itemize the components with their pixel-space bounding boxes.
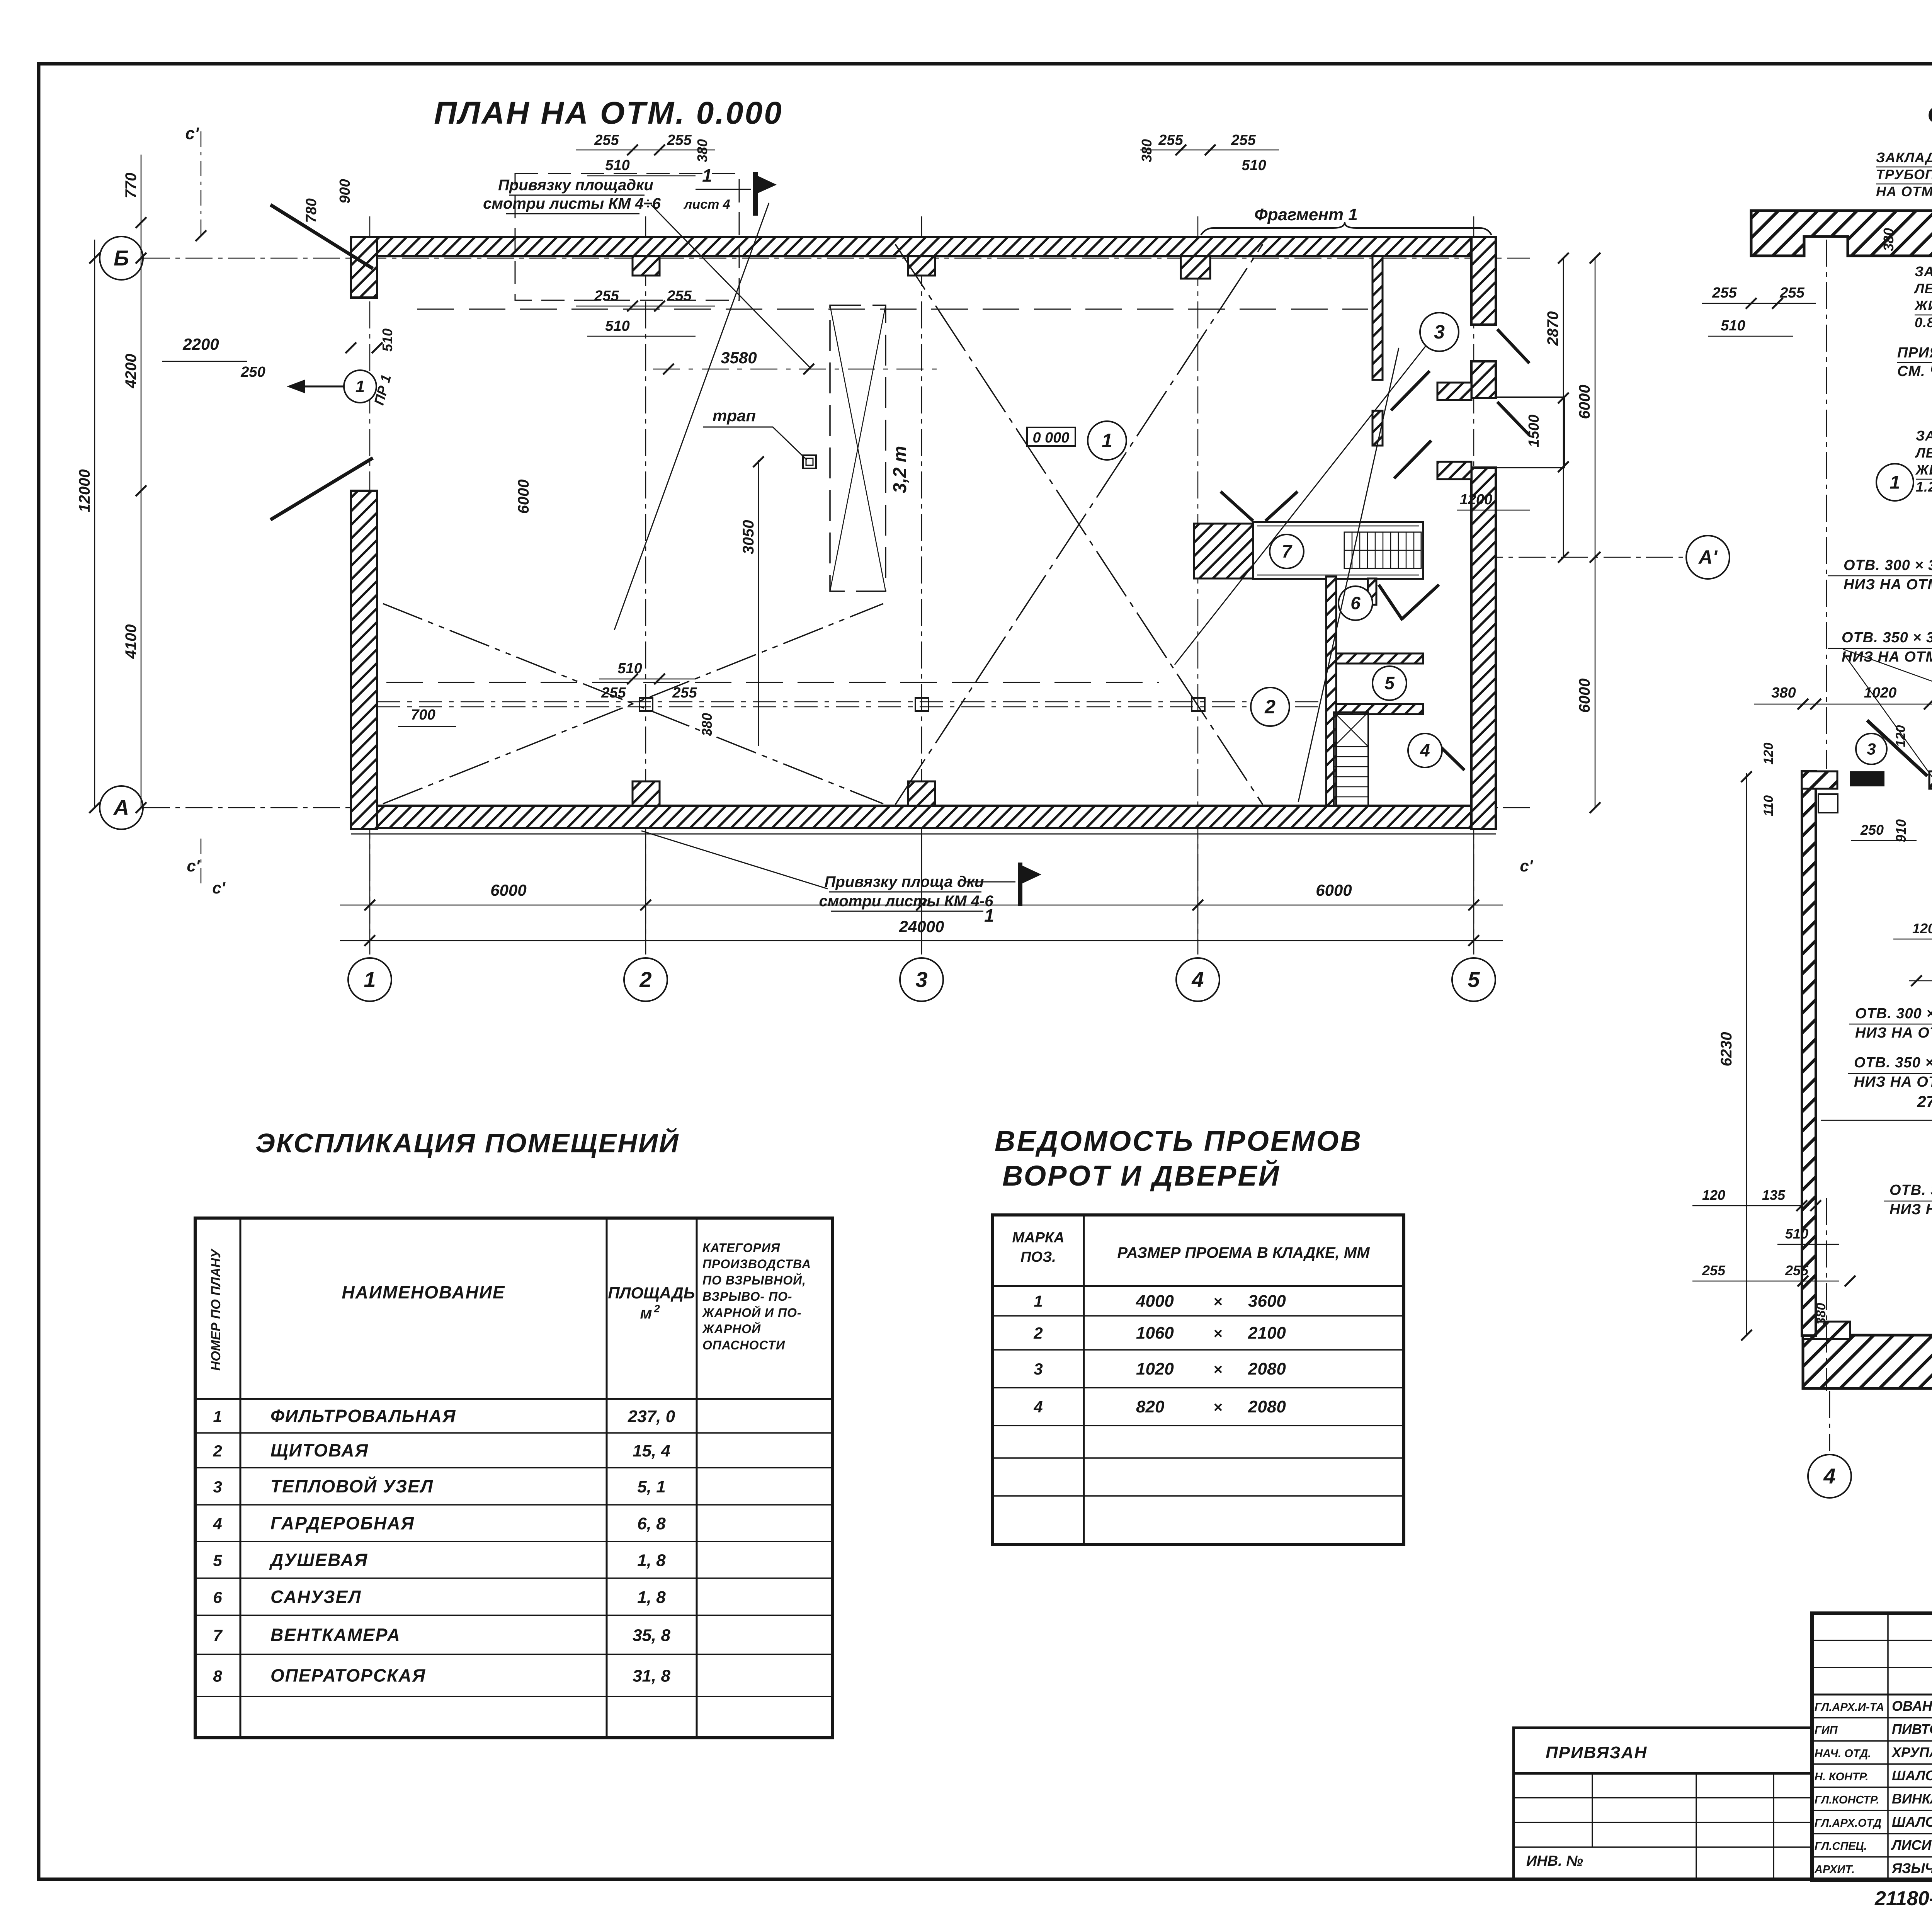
axis circle 3 bbox=[900, 958, 943, 1001]
svg-text:2080: 2080 bbox=[1248, 1397, 1286, 1416]
svg-text:1: 1 bbox=[984, 905, 994, 926]
plan top-left corner pier bbox=[351, 237, 377, 298]
svg-text:510: 510 bbox=[379, 328, 395, 352]
svg-text:c': c' bbox=[187, 857, 200, 875]
svg-text:1500: 1500 bbox=[1526, 415, 1542, 447]
bottom dim line 6000s bbox=[340, 905, 1503, 906]
pilaster axis4 top bbox=[1181, 256, 1210, 279]
svg-text:1: 1 bbox=[702, 165, 712, 185]
svg-text:255: 255 bbox=[1785, 1262, 1809, 1278]
crane rect X bbox=[830, 305, 886, 591]
svg-text:0.800. М-4: 0.800. М-4 bbox=[1915, 315, 1932, 330]
svg-text:2080: 2080 bbox=[1248, 1359, 1286, 1378]
svg-text:3: 3 bbox=[915, 967, 927, 992]
fragment bracket bbox=[1201, 222, 1492, 235]
column square axis4 bbox=[1192, 698, 1205, 711]
svg-text:1060: 1060 bbox=[1136, 1324, 1174, 1342]
svg-text:7: 7 bbox=[213, 1627, 223, 1645]
svg-text:Фрагмент 1: Фрагмент 1 bbox=[1254, 205, 1358, 224]
svg-text:ГЛ.СПЕЦ.: ГЛ.СПЕЦ. bbox=[1815, 1840, 1867, 1853]
svg-text:ПИВТОРАК: ПИВТОРАК bbox=[1892, 1721, 1932, 1737]
svg-text:6000: 6000 bbox=[490, 881, 526, 899]
svg-text:Н. КОНТР.: Н. КОНТР. bbox=[1815, 1771, 1869, 1783]
svg-text:255: 255 bbox=[1231, 132, 1256, 148]
svg-text:24000: 24000 bbox=[899, 917, 944, 936]
svg-text:255: 255 bbox=[672, 685, 697, 701]
room 7 stair bbox=[1344, 532, 1421, 568]
svg-text:НИЗ НА ОТМ. 2.780: НИЗ НА ОТМ. 2.780 bbox=[1854, 1074, 1932, 1090]
svg-text:1.200. М-4: 1.200. М-4 bbox=[1916, 479, 1932, 495]
svg-text:1, 8: 1, 8 bbox=[637, 1551, 666, 1570]
svg-text:1: 1 bbox=[1102, 430, 1112, 451]
svg-text:6: 6 bbox=[213, 1588, 222, 1606]
svg-text:ОТВ. 300 × 300 ОВ: ОТВ. 300 × 300 ОВ bbox=[1855, 1006, 1932, 1022]
cross brace room 1 bbox=[895, 244, 1263, 805]
svg-text:ОПАСНОСТИ: ОПАСНОСТИ bbox=[702, 1338, 785, 1352]
svg-text:255: 255 bbox=[667, 288, 692, 304]
svg-text:5: 5 bbox=[1384, 673, 1395, 693]
svg-text:СМ. ЧЕРТЕЖИ КЖ 15: СМ. ЧЕРТЕЖИ КЖ 15 bbox=[1897, 363, 1932, 379]
signature rows bbox=[1812, 1717, 1932, 1718]
svg-text:c': c' bbox=[1520, 857, 1533, 875]
partition 5/4 horizontal bbox=[1336, 704, 1423, 714]
svg-text:255: 255 bbox=[667, 132, 692, 148]
svg-text:лист 4: лист 4 bbox=[683, 197, 730, 212]
svg-text:6000: 6000 bbox=[515, 480, 532, 514]
svg-text:А': А' bbox=[1698, 546, 1718, 568]
mini grid top-left bbox=[1812, 1640, 1932, 1641]
svg-text:ИНВ. №: ИНВ. № bbox=[1526, 1853, 1583, 1869]
svg-text:7: 7 bbox=[1282, 541, 1293, 561]
column square axis2 bbox=[639, 698, 653, 711]
plan bottom wall bbox=[351, 806, 1496, 828]
door leaf room3 lower bbox=[1394, 441, 1431, 478]
svg-text:1020: 1020 bbox=[1864, 685, 1897, 701]
svg-text:255: 255 bbox=[1702, 1262, 1726, 1278]
svg-text:910: 910 bbox=[1893, 819, 1909, 842]
svg-text:ГЛ.КОНСТР.: ГЛ.КОНСТР. bbox=[1815, 1794, 1879, 1806]
svg-text:2775: 2775 bbox=[1917, 1092, 1932, 1111]
svg-text:ПРОИЗВОДСТВА: ПРОИЗВОДСТВА bbox=[702, 1257, 811, 1271]
svg-text:237, 0: 237, 0 bbox=[628, 1407, 675, 1426]
svg-text:ЖАРНОЙ И ПО-: ЖАРНОЙ И ПО- bbox=[702, 1306, 802, 1320]
svg-text:ВОРОТ И ДВЕРЕЙ: ВОРОТ И ДВЕРЕЙ bbox=[1002, 1159, 1281, 1192]
pilaster axis3 top bbox=[908, 256, 935, 276]
svg-text:35, 8: 35, 8 bbox=[633, 1626, 670, 1645]
svg-text:ОТВ. 300 × 300 ОВ: ОТВ. 300 × 300 ОВ bbox=[1844, 557, 1932, 573]
svg-text:255: 255 bbox=[1158, 132, 1183, 148]
cross brace lower-left room bbox=[383, 604, 883, 804]
axis circle 2 bbox=[624, 958, 667, 1001]
axis B horizontal bbox=[100, 258, 359, 259]
svg-text:3,2 т: 3,2 т bbox=[890, 446, 910, 493]
svg-text:ПР 4: ПР 4 bbox=[1855, 769, 1884, 784]
svg-text:2: 2 bbox=[213, 1442, 222, 1460]
fragment bottom-left step bbox=[1803, 1322, 1850, 1339]
svg-text:НОМЕР ПО ПЛАНУ: НОМЕР ПО ПЛАНУ bbox=[209, 1248, 223, 1371]
svg-text:2: 2 bbox=[1264, 696, 1276, 718]
pilaster axis2 top bbox=[633, 256, 660, 276]
svg-text:4100: 4100 bbox=[122, 624, 139, 659]
small ticks left wall bbox=[372, 342, 383, 353]
svg-text:ЛЕНИЯ ТРУБОПРОВОДОВ ЗАЛО-: ЛЕНИЯ ТРУБОПРОВОДОВ ЗАЛО- bbox=[1915, 445, 1932, 461]
right dim chain bbox=[1563, 258, 1564, 557]
plan right wall middle bbox=[1471, 361, 1496, 398]
partition rooms 2/6 vertical bbox=[1326, 577, 1336, 806]
svg-text:2: 2 bbox=[639, 967, 651, 992]
bottom dim extension lines bbox=[369, 835, 371, 954]
svg-text:ПО ВЗРЫВНОЙ,: ПО ВЗРЫВНОЙ, bbox=[702, 1273, 806, 1287]
svg-text:ФИЛЬТРОВАЛЬНАЯ: ФИЛЬТРОВАЛЬНАЯ bbox=[270, 1406, 456, 1426]
svg-text:ТЕПЛОВОЙ УЗЕЛ: ТЕПЛОВОЙ УЗЕЛ bbox=[270, 1476, 434, 1496]
svg-text:4200: 4200 bbox=[122, 354, 139, 389]
svg-text:2870: 2870 bbox=[1544, 311, 1561, 346]
svg-text:НА ОТМЕТКАХ 0.800 И 1.200 М-4: НА ОТМЕТКАХ 0.800 И 1.200 М-4 bbox=[1876, 184, 1932, 199]
svg-text:1200: 1200 bbox=[1460, 492, 1493, 508]
svg-text:ГИП: ГИП bbox=[1815, 1724, 1838, 1737]
svg-text:ЛЕНИЯ ТРУБОПРОВОДОВ ЗАЛО-: ЛЕНИЯ ТРУБОПРОВОДОВ ЗАЛО- bbox=[1913, 281, 1932, 296]
svg-text:м: м bbox=[640, 1304, 652, 1322]
svg-text:110: 110 bbox=[1761, 795, 1776, 816]
svg-text:1: 1 bbox=[213, 1407, 222, 1426]
door pair room 7 bbox=[1221, 492, 1253, 521]
svg-text:ЖАРНОЙ: ЖАРНОЙ bbox=[702, 1322, 761, 1336]
door pair room 6 bbox=[1379, 585, 1403, 620]
svg-text:ОТВ. 350 × 350 ОВ: ОТВ. 350 × 350 ОВ bbox=[1842, 630, 1932, 646]
svg-text:380: 380 bbox=[1881, 228, 1896, 251]
svg-text:6: 6 bbox=[1350, 593, 1361, 613]
svg-text:Привязку площадки: Привязку площадки bbox=[498, 177, 653, 194]
svg-text:КАТЕГОРИЯ: КАТЕГОРИЯ bbox=[702, 1241, 780, 1255]
room 7 box bbox=[1253, 522, 1423, 579]
plan top wall bbox=[351, 237, 1496, 256]
svg-text:21180-01: 21180-01 bbox=[1874, 1887, 1932, 1910]
gate PR1 leaf lower bbox=[270, 458, 373, 520]
svg-text:А: А bbox=[113, 795, 129, 820]
partition 6/5 horizontal bbox=[1336, 653, 1423, 664]
svg-text:ЯЗЫЧЬЯН: ЯЗЫЧЬЯН bbox=[1891, 1860, 1932, 1876]
svg-text:ОПЕРАТОРСКАЯ: ОПЕРАТОРСКАЯ bbox=[270, 1666, 426, 1686]
axis C' top dash bbox=[201, 131, 202, 240]
stub from right wall 1 bbox=[1437, 383, 1471, 400]
svg-text:780: 780 bbox=[303, 198, 320, 223]
svg-text:120: 120 bbox=[1761, 743, 1776, 765]
svg-text:250: 250 bbox=[240, 364, 265, 380]
plan bottom wall footing line bbox=[351, 834, 1496, 835]
crane rail dashed upper bbox=[417, 309, 1368, 310]
svg-text:380: 380 bbox=[1814, 1303, 1828, 1325]
svg-text:ЩИТОВАЯ: ЩИТОВАЯ bbox=[270, 1440, 369, 1460]
svg-text:2200: 2200 bbox=[182, 335, 219, 353]
axis circle 4 bbox=[1176, 958, 1219, 1001]
svg-text:ЗАКЛАДНЫЕ ДЕТАЛИ ДЛЯ КРЕП-: ЗАКЛАДНЫЕ ДЕТАЛИ ДЛЯ КРЕП- bbox=[1916, 428, 1932, 444]
svg-text:120: 120 bbox=[1702, 1187, 1725, 1203]
svg-text:ГЛ.АРХ.ОТД: ГЛ.АРХ.ОТД bbox=[1815, 1817, 1881, 1829]
axis circle A' plan bbox=[1686, 536, 1730, 579]
svg-text:1: 1 bbox=[364, 967, 376, 992]
svg-text:ГЛ.АРХ.И-ТА: ГЛ.АРХ.И-ТА bbox=[1815, 1701, 1884, 1713]
leader diagonal from circle 3 bbox=[1175, 346, 1426, 665]
svg-text:смотри листы КМ 4-6: смотри листы КМ 4-6 bbox=[819, 893, 993, 910]
svg-text:НАЧ. ОТД.: НАЧ. ОТД. bbox=[1815, 1747, 1871, 1760]
svg-text:c': c' bbox=[185, 124, 199, 143]
svg-text:АРХИТ.: АРХИТ. bbox=[1814, 1863, 1855, 1876]
svg-text:6000: 6000 bbox=[1316, 881, 1352, 899]
svg-text:255: 255 bbox=[601, 685, 626, 701]
svg-text:4: 4 bbox=[1033, 1398, 1043, 1416]
svg-text:ЖИТЬ В КЛАДКУ НА ОТМЕТКЕ: ЖИТЬ В КЛАДКУ НА ОТМЕТКЕ bbox=[1914, 298, 1932, 313]
svg-text:5: 5 bbox=[213, 1552, 222, 1570]
svg-text:ЖИТЬ В КЛАДКУ НА ОТМЕТКЕ: ЖИТЬ В КЛАДКУ НА ОТМЕТКЕ bbox=[1915, 462, 1932, 478]
extension line B left bbox=[143, 258, 351, 259]
svg-text:820: 820 bbox=[1136, 1397, 1165, 1416]
frag axis circle 4 bbox=[1808, 1455, 1851, 1498]
svg-text:ОВАНЕСЯН: ОВАНЕСЯН bbox=[1892, 1698, 1932, 1714]
axis 5 vertical bbox=[1473, 216, 1475, 954]
svg-text:c': c' bbox=[212, 879, 226, 897]
svg-text:8: 8 bbox=[213, 1667, 222, 1685]
pilaster axis2 bottom bbox=[633, 781, 660, 806]
door leaf 3 top bbox=[1867, 720, 1927, 776]
svg-text:НАИМЕНОВАНИЕ: НАИМЕНОВАНИЕ bbox=[342, 1282, 505, 1302]
svg-text:15, 4: 15, 4 bbox=[633, 1441, 670, 1460]
svg-text:3: 3 bbox=[1867, 740, 1876, 758]
pit square at left wall bbox=[1818, 794, 1838, 813]
svg-text:700: 700 bbox=[411, 707, 435, 723]
axis A horizontal bbox=[100, 807, 1530, 808]
svg-text:1, 8: 1, 8 bbox=[637, 1588, 666, 1607]
svg-text:ХРУПАЛО: ХРУПАЛО bbox=[1891, 1744, 1932, 1760]
gate PR1 leaf upper bbox=[270, 205, 373, 269]
svg-text:31, 8: 31, 8 bbox=[633, 1667, 670, 1686]
door leaf room 4 bbox=[1430, 736, 1464, 770]
axis circle 1 bbox=[348, 958, 391, 1001]
lintel PR4 top bbox=[1850, 771, 1884, 786]
room circle 2 bbox=[1251, 687, 1289, 726]
svg-text:380: 380 bbox=[1139, 139, 1155, 162]
leader diagonal rooms bbox=[1298, 348, 1399, 802]
svg-text:120: 120 bbox=[1893, 725, 1908, 747]
svg-text:1020: 1020 bbox=[1136, 1359, 1174, 1378]
svg-text:РАЗМЕР ПРОЕМА В КЛАДКЕ, ММ: РАЗМЕР ПРОЕМА В КЛАДКЕ, ММ bbox=[1117, 1244, 1370, 1261]
svg-text:ГАРДЕРОБНАЯ: ГАРДЕРОБНАЯ bbox=[270, 1513, 415, 1533]
svg-text:255: 255 bbox=[594, 132, 619, 148]
svg-text:ВЕДОМОСТЬ ПРОЕМОВ: ВЕДОМОСТЬ ПРОЕМОВ bbox=[995, 1125, 1362, 1157]
svg-text:ТРУБОПРОВОДОВ ЗАЛОЖИТЬ В КЛАДК: ТРУБОПРОВОДОВ ЗАЛОЖИТЬ В КЛАДКУ bbox=[1876, 167, 1932, 182]
svg-text:ФРАГМЕНТ 1: ФРАГМЕНТ 1 bbox=[1927, 97, 1932, 133]
svg-text:4: 4 bbox=[1420, 740, 1430, 761]
svg-text:ПЛОЩАДЬ: ПЛОЩАДЬ bbox=[608, 1284, 695, 1302]
axis 2 vertical bbox=[645, 216, 646, 954]
svg-text:380: 380 bbox=[694, 139, 710, 162]
room circle 4 bbox=[1408, 733, 1442, 767]
pilaster axis3 bottom bbox=[908, 781, 935, 806]
svg-text:ЗАКЛАДНЫЕ ДЕТАЛИ ДЛЯ КРЕП-: ЗАКЛАДНЫЕ ДЕТАЛИ ДЛЯ КРЕП- bbox=[1915, 264, 1932, 279]
section flag bottom bbox=[1018, 863, 1022, 906]
crane rail dashed lower bbox=[386, 682, 1159, 683]
plan right wall lower bbox=[1471, 468, 1496, 829]
trap symbol bbox=[803, 455, 816, 468]
table 1 grid bbox=[195, 1218, 832, 1738]
svg-text:ПРИВЯЗАН: ПРИВЯЗАН bbox=[1546, 1743, 1647, 1762]
svg-text:6230: 6230 bbox=[1718, 1032, 1735, 1067]
svg-text:ВЕНТКАМЕРА: ВЕНТКАМЕРА bbox=[270, 1625, 401, 1645]
svg-text:ОТВ. 350 × 350 ОВ: ОТВ. 350 × 350 ОВ bbox=[1889, 1182, 1932, 1198]
privyazan block bbox=[1514, 1728, 1812, 1773]
svg-text:1: 1 bbox=[355, 377, 365, 396]
svg-text:900: 900 bbox=[337, 179, 353, 203]
svg-text:×: × bbox=[1213, 1361, 1222, 1378]
svg-text:0 000: 0 000 bbox=[1032, 430, 1069, 446]
privyazan grid bbox=[1512, 1773, 1515, 1879]
svg-text:250: 250 bbox=[1860, 822, 1884, 838]
room circle 3 bbox=[1420, 313, 1459, 351]
room circle 1 bbox=[1088, 421, 1126, 460]
svg-text:120: 120 bbox=[1912, 920, 1932, 936]
leader lines from callout bbox=[614, 203, 769, 630]
svg-text:ПРИЯМОК: ПРИЯМОК bbox=[1897, 345, 1932, 361]
vent shaft plan bbox=[1334, 712, 1368, 806]
svg-text:ВЗРЫВО- ПО-: ВЗРЫВО- ПО- bbox=[702, 1290, 793, 1303]
svg-text:ДУШЕВАЯ: ДУШЕВАЯ bbox=[269, 1550, 368, 1570]
svg-text:3600: 3600 bbox=[1248, 1292, 1286, 1311]
elevation box 0.000 bbox=[1027, 427, 1075, 446]
svg-text:НИЗ НА ОТМ. 3.000: НИЗ НА ОТМ. 3.000 bbox=[1844, 577, 1932, 593]
svg-text:ПОЗ.: ПОЗ. bbox=[1020, 1249, 1056, 1265]
left dim chain line bbox=[141, 155, 142, 808]
upper right door leaf bbox=[1497, 329, 1529, 363]
svg-text:2: 2 bbox=[1033, 1324, 1043, 1342]
table 2 grid bbox=[993, 1215, 1404, 1545]
bay door leaf bbox=[1497, 402, 1529, 435]
svg-text:3: 3 bbox=[1434, 321, 1445, 343]
gate PR1 arrow bbox=[294, 386, 352, 388]
svg-text:ЗАКЛАДНЫЕ ДЕТАЛИ ДЛЯ КРЕПЛЕНИЯ: ЗАКЛАДНЫЕ ДЕТАЛИ ДЛЯ КРЕПЛЕНИЯ bbox=[1876, 150, 1932, 165]
plan bottom-left corner pier bbox=[351, 781, 377, 806]
svg-text:трап: трап bbox=[713, 407, 756, 425]
fragment left wall corner piece bbox=[1802, 771, 1837, 789]
fragment left wall bbox=[1802, 771, 1816, 1336]
svg-text:510: 510 bbox=[605, 318, 629, 334]
svg-text:6000: 6000 bbox=[1576, 385, 1593, 419]
svg-text:5, 1: 5, 1 bbox=[637, 1477, 665, 1496]
column square axis3 bbox=[915, 698, 929, 711]
svg-text:380: 380 bbox=[699, 713, 715, 736]
svg-text:3: 3 bbox=[1034, 1360, 1043, 1378]
svg-text:ШАЛОМЕЕВ: ШАЛОМЕЕВ bbox=[1892, 1814, 1932, 1830]
svg-text:НИЗ НА ОТМ. 2.780: НИЗ НА ОТМ. 2.780 bbox=[1842, 649, 1932, 665]
svg-text:6, 8: 6, 8 bbox=[637, 1514, 666, 1533]
stub partition bbox=[1368, 578, 1376, 605]
room circle 6 bbox=[1338, 586, 1372, 620]
svg-text:4: 4 bbox=[1191, 967, 1204, 992]
section flag top bbox=[753, 172, 758, 216]
svg-text:Б: Б bbox=[114, 246, 129, 270]
svg-text:255: 255 bbox=[594, 288, 619, 304]
plan right wall upper bbox=[1471, 237, 1496, 325]
svg-text:ШАЛОМЕЕВ: ШАЛОМЕЕВ bbox=[1892, 1768, 1932, 1783]
svg-text:4: 4 bbox=[1823, 1464, 1835, 1488]
svg-text:510: 510 bbox=[1242, 157, 1266, 174]
svg-text:ОТВ. 350 × 350 ОВ: ОТВ. 350 × 350 ОВ bbox=[1854, 1055, 1932, 1071]
fragment top+right wall bbox=[1751, 211, 1932, 551]
svg-text:12000: 12000 bbox=[76, 469, 93, 512]
svg-text:4: 4 bbox=[213, 1515, 222, 1533]
svg-text:НИЗ НА ОТМ. 3.000: НИЗ НА ОТМ. 3.000 bbox=[1855, 1025, 1932, 1041]
svg-text:135: 135 bbox=[1762, 1187, 1786, 1203]
svg-text:5: 5 bbox=[1468, 967, 1480, 992]
room 7 pier bbox=[1194, 524, 1253, 578]
room circle 7 bbox=[1270, 534, 1304, 568]
svg-text:ЭКСПЛИКАЦИЯ ПОМЕЩЕНИЙ: ЭКСПЛИКАЦИЯ ПОМЕЩЕНИЙ bbox=[255, 1127, 679, 1158]
frag circle 1 bbox=[1876, 464, 1913, 501]
svg-text:4000: 4000 bbox=[1136, 1292, 1174, 1311]
svg-text:3580: 3580 bbox=[721, 349, 757, 367]
frag circle 3 left bbox=[1856, 733, 1887, 764]
svg-text:×: × bbox=[1213, 1325, 1222, 1342]
monorail dashed rect bbox=[515, 174, 739, 300]
svg-text:2: 2 bbox=[653, 1303, 660, 1315]
svg-text:3: 3 bbox=[213, 1478, 222, 1496]
svg-text:ПЛАН НА ОТМ. 0.000: ПЛАН НА ОТМ. 0.000 bbox=[434, 95, 783, 131]
svg-text:770: 770 bbox=[122, 173, 139, 199]
svg-text:Привязку площа дки: Привязку площа дки bbox=[825, 873, 984, 890]
frag axis 4 dash-dot vertical bbox=[1826, 240, 1827, 769]
axis circle A bbox=[100, 786, 143, 829]
axis circle 5 bbox=[1452, 958, 1495, 1001]
plan left wall lower bbox=[351, 491, 377, 829]
svg-text:ВИНКЛЕР: ВИНКЛЕР bbox=[1892, 1791, 1932, 1807]
svg-text:1: 1 bbox=[1034, 1292, 1043, 1310]
door leaf room3 upper bbox=[1391, 371, 1430, 410]
svg-text:255: 255 bbox=[1712, 285, 1737, 301]
svg-text:1: 1 bbox=[1890, 472, 1900, 493]
partition rooms 1/3 bbox=[1372, 256, 1383, 380]
gate circle 1 bbox=[344, 370, 376, 403]
axis circle B bbox=[100, 236, 143, 280]
foundation beam line bbox=[377, 701, 1325, 703]
svg-text:САНУЗЕЛ: САНУЗЕЛ bbox=[270, 1587, 361, 1607]
fragment right wall lower bbox=[1803, 659, 1932, 1388]
title block outer bbox=[1812, 1613, 1932, 1880]
bottom dim line 24000 bbox=[340, 940, 1503, 941]
svg-text:510: 510 bbox=[1785, 1226, 1808, 1242]
svg-text:510: 510 bbox=[1721, 318, 1745, 334]
right bay outline bbox=[1496, 397, 1564, 468]
axis A' (plan) bbox=[1476, 557, 1685, 558]
room circle 5 bbox=[1372, 666, 1406, 700]
axis 1 vertical bbox=[369, 216, 371, 954]
svg-text:×: × bbox=[1213, 1399, 1222, 1416]
svg-text:3050: 3050 bbox=[740, 520, 757, 555]
svg-text:×: × bbox=[1213, 1293, 1222, 1310]
crane 3.2t dashed rect bbox=[830, 305, 886, 591]
stub from right wall 2 bbox=[1437, 462, 1471, 479]
svg-text:6000: 6000 bbox=[1576, 679, 1593, 713]
svg-text:510: 510 bbox=[605, 157, 629, 174]
h-wall with pr5 stub bbox=[1929, 771, 1932, 789]
svg-text:МАРКА: МАРКА bbox=[1012, 1230, 1064, 1246]
svg-text:смотри листы КМ 4÷6: смотри листы КМ 4÷6 bbox=[483, 195, 661, 212]
axis 3 vertical bbox=[921, 216, 922, 954]
axis 4 vertical bbox=[1197, 216, 1199, 954]
svg-text:380: 380 bbox=[1771, 685, 1796, 701]
svg-text:2100: 2100 bbox=[1248, 1324, 1286, 1342]
svg-text:ЛИСИЧКИН: ЛИСИЧКИН bbox=[1891, 1837, 1932, 1853]
svg-text:НИЗ НА ОТМ. 2.430: НИЗ НА ОТМ. 2.430 bbox=[1889, 1201, 1932, 1218]
